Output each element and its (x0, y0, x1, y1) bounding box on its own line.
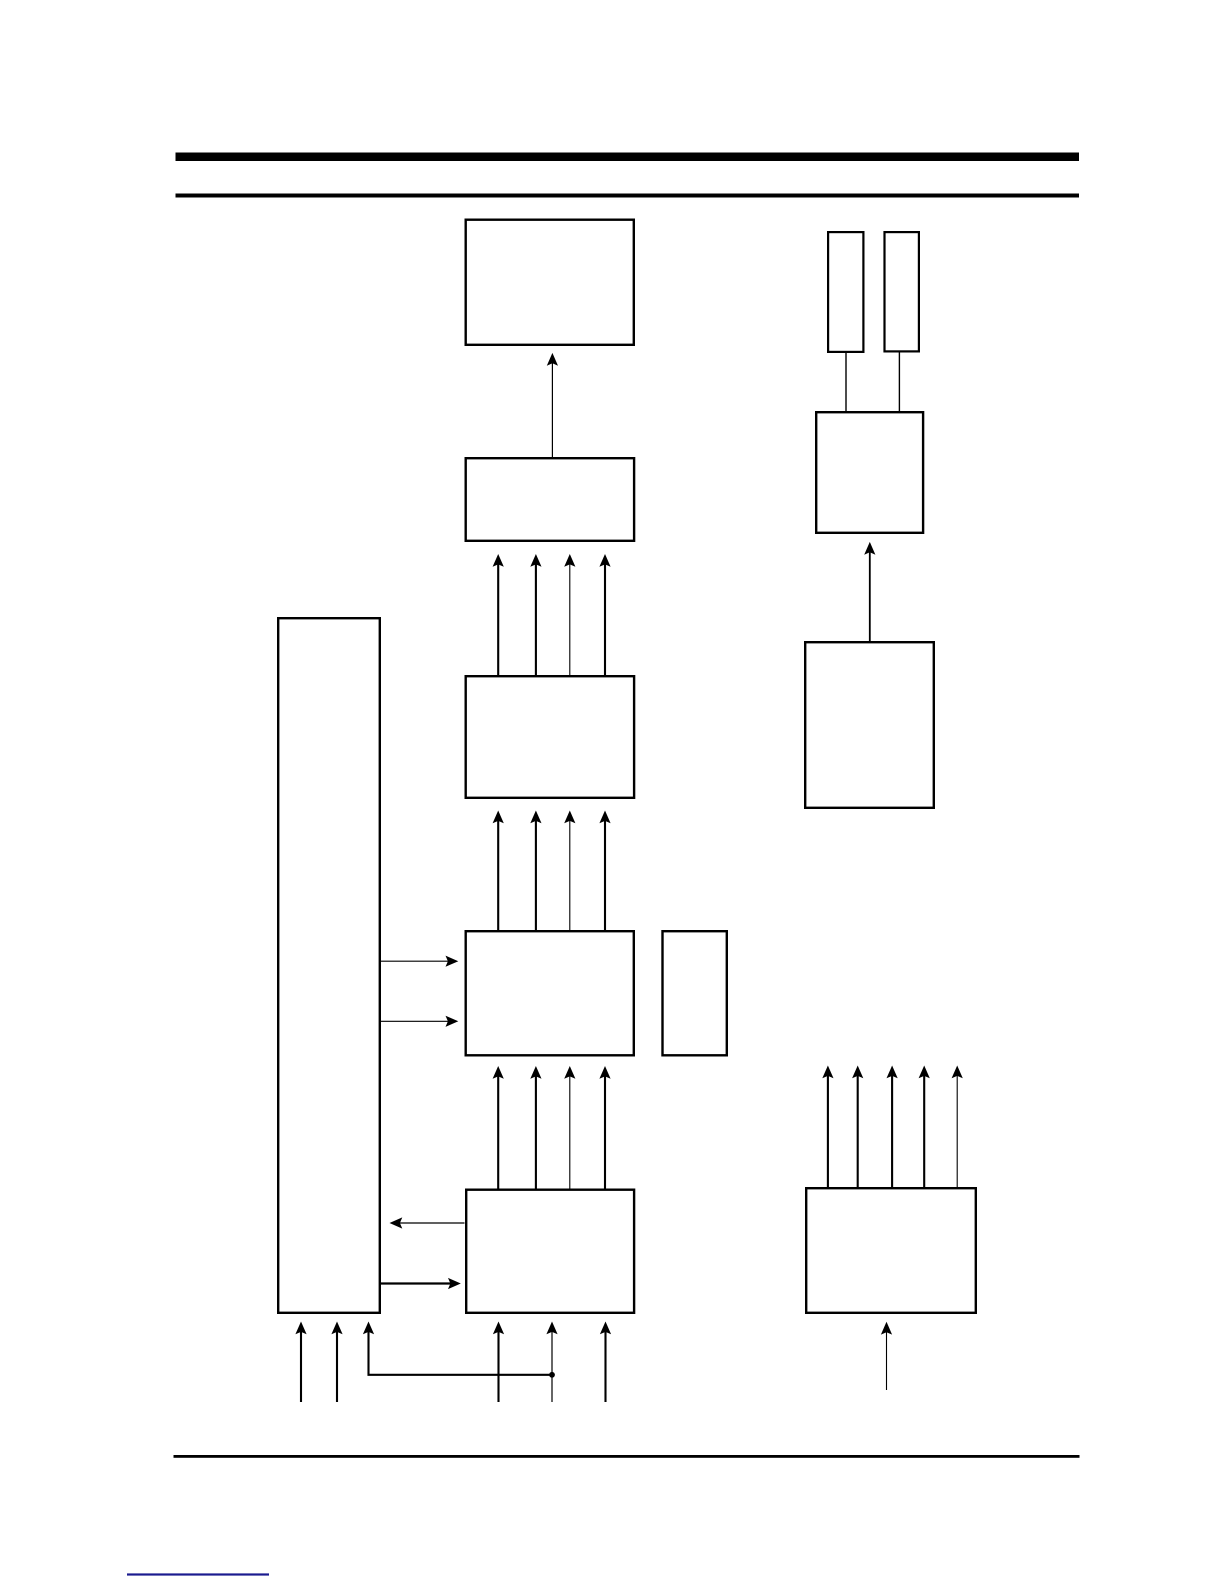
branch wire with arrow into B10 bottom (363, 1322, 552, 1375)
input arrow 2 into B5 bottom (600, 1322, 611, 1403)
arrow B10 to B4 upper (381, 956, 458, 967)
arrows B5 to B4 (bus) (493, 1066, 611, 1189)
clock wire through junction into B5 bottom (546, 1322, 557, 1403)
block B7 right middle (805, 642, 934, 808)
wire VR2 to B8 (898, 352, 900, 412)
block B5 (466, 1190, 634, 1313)
header rule thin (176, 194, 1080, 198)
block B4 (466, 931, 634, 1055)
input arrow 1 into B10 bottom (295, 1322, 306, 1403)
input arrow 2 into B10 bottom (331, 1322, 342, 1403)
footer rule (174, 1455, 1080, 1458)
block B8 upper right (816, 412, 923, 533)
arrow B10 to B4 lower (381, 1016, 458, 1027)
arrow B10 to B5 (381, 1278, 461, 1289)
arrow B2 to B1 (547, 353, 558, 457)
block B2 (466, 458, 634, 541)
header rule thick (176, 153, 1080, 162)
block B9 small right of B4 (663, 931, 727, 1055)
wire VR1 to B8 (845, 352, 847, 411)
footer link underline (127, 1573, 269, 1575)
block VR2 top right slim (885, 232, 919, 351)
arrows B4 to B3 (bus) (493, 811, 611, 931)
block B6 bottom right (806, 1188, 976, 1313)
input arrow 1 into B5 bottom (493, 1322, 504, 1403)
arrows from B6 upward (bus) (822, 1066, 963, 1188)
block B3 (466, 676, 634, 798)
block VR1 top right slim (828, 232, 863, 352)
arrow B7 to B8 (864, 542, 875, 641)
block B10 tall left (278, 618, 380, 1313)
junction dot (549, 1372, 555, 1378)
block B1 top center (466, 220, 634, 345)
input arrow into B6 bottom (881, 1322, 892, 1390)
arrows B3 to B2 (bus) (493, 554, 611, 675)
arrow B5 to B10 (390, 1217, 465, 1228)
